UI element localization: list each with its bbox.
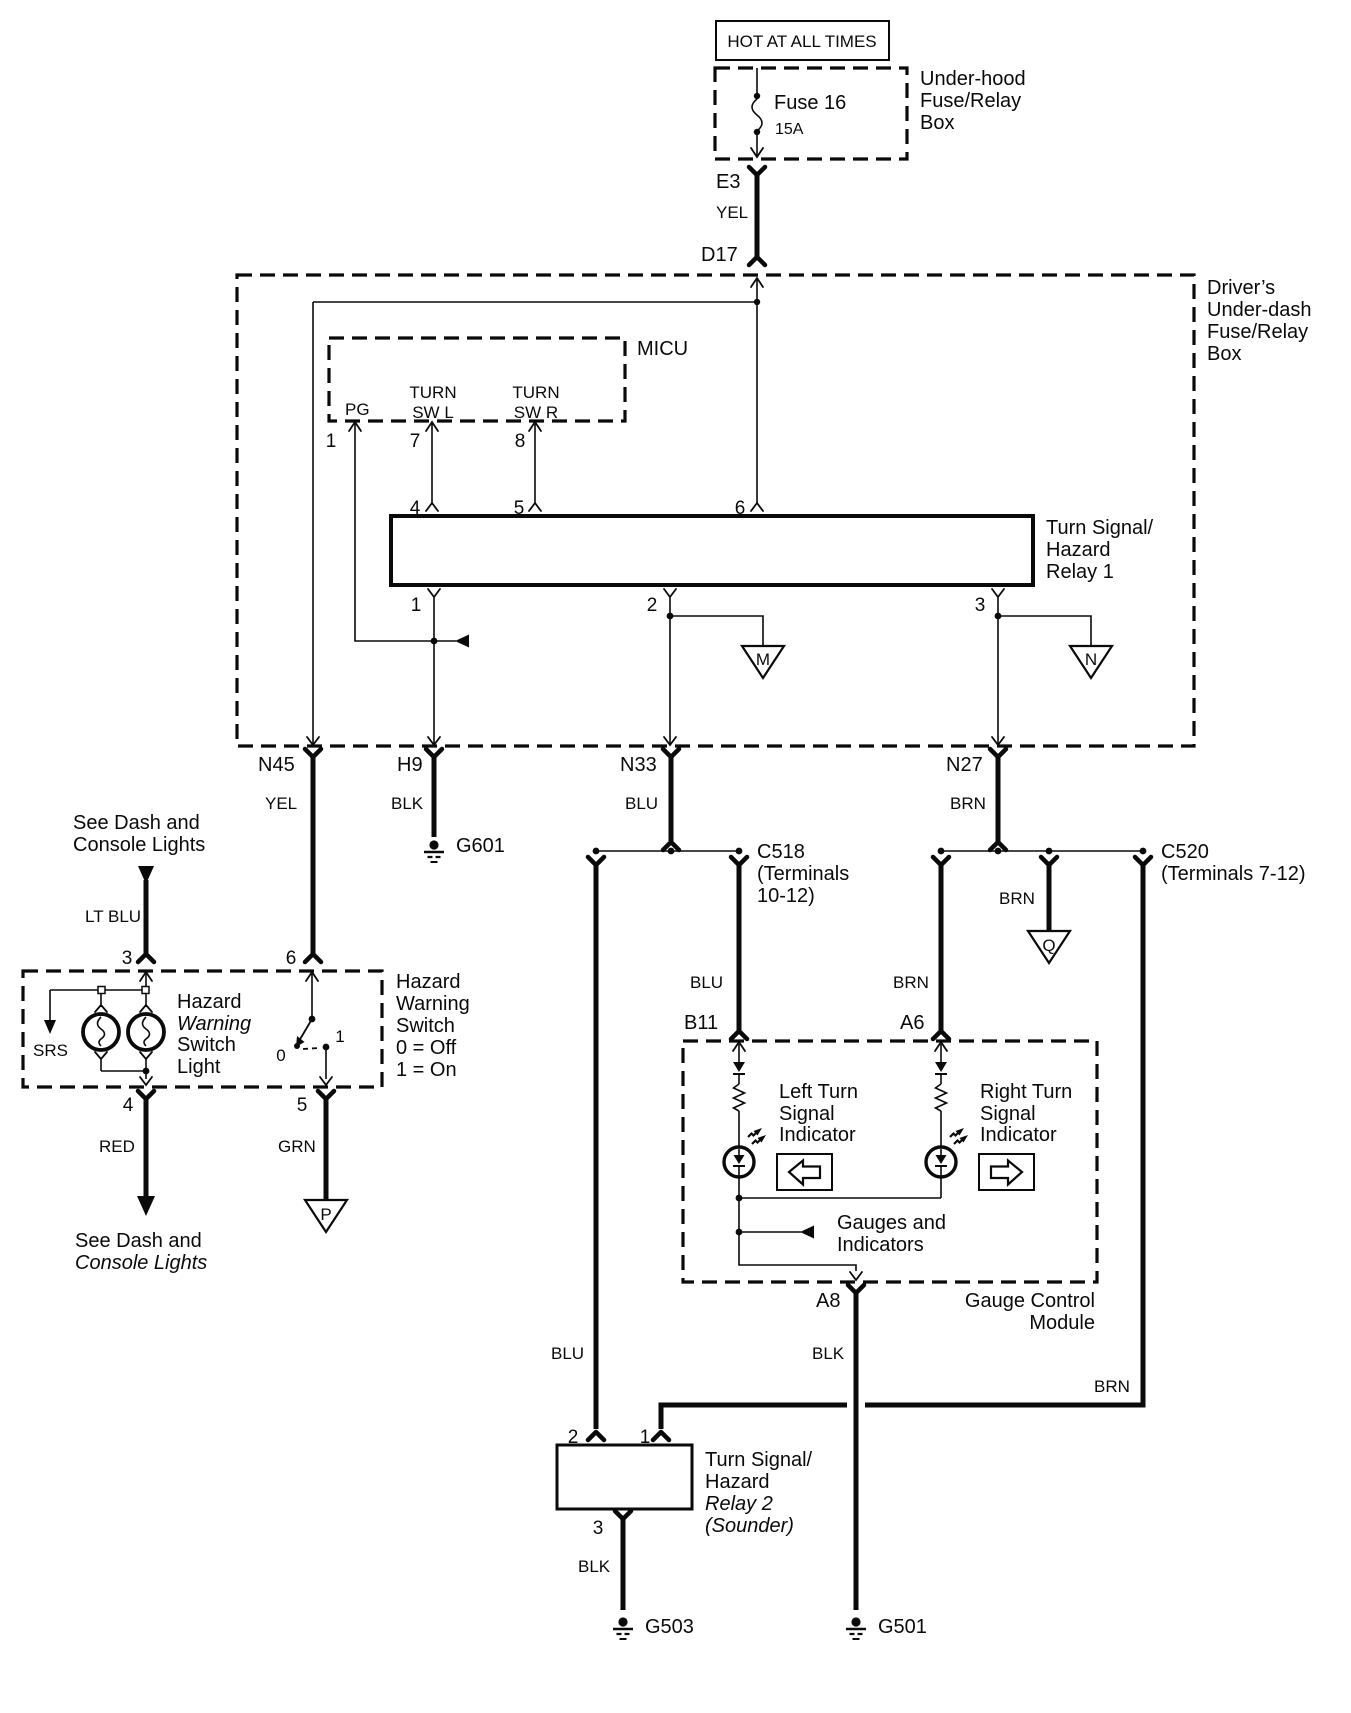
node to gauges stub	[736, 1229, 743, 1236]
svg-text:TURN: TURN	[512, 383, 559, 402]
wire BLU long down to relay 2 pin 2	[594, 863, 599, 1429]
svg-text:1: 1	[411, 595, 422, 616]
svg-text:GRN: GRN	[278, 1137, 316, 1156]
label Under-hood Fuse/Relay Box	[920, 68, 1026, 134]
svg-text:(Terminals 7-12): (Terminals 7-12)	[1161, 863, 1305, 885]
svg-text:Fuse/Relay: Fuse/Relay	[920, 90, 1021, 112]
left arrow icon	[777, 1154, 832, 1190]
svg-text:Switch: Switch	[177, 1034, 236, 1056]
SRS branch wire and arrow	[49, 990, 51, 1021]
pin 7 arrow into MICU	[426, 422, 438, 431]
svg-text:7: 7	[410, 431, 421, 452]
right bulb branch	[145, 993, 147, 1007]
gauge control module box (dashed)	[683, 1041, 1097, 1282]
svg-text:Hazard: Hazard	[177, 991, 241, 1013]
switch pivot node	[309, 1016, 316, 1023]
label see dash and console lights (bottom)	[75, 1230, 207, 1274]
wire contact1 to pin 5	[325, 1047, 327, 1079]
diode right	[935, 1062, 947, 1074]
svg-text:1 = On: 1 = On	[396, 1059, 457, 1081]
pin 5 arrow out of box	[320, 1077, 332, 1085]
wire pin8 to relay pin5	[534, 424, 536, 504]
svg-text:BLU: BLU	[551, 1344, 584, 1363]
relay pin 6 fork	[751, 503, 763, 511]
pin B11 arrow into module	[733, 1042, 745, 1051]
svg-text:YEL: YEL	[716, 203, 748, 222]
svg-text:Right Turn: Right Turn	[980, 1081, 1072, 1103]
relay pin 2 fork and wire	[664, 589, 676, 597]
svg-text:BLK: BLK	[578, 1557, 611, 1576]
svg-text:B11: B11	[684, 1012, 718, 1034]
svg-text:YEL: YEL	[265, 794, 297, 813]
ground G601	[424, 835, 505, 862]
big dashed box	[237, 275, 1194, 746]
wire BLK relay2 to G503	[621, 1517, 626, 1610]
svg-text:G503: G503	[645, 1616, 694, 1638]
svg-text:(Terminals: (Terminals	[757, 863, 849, 885]
svg-text:BLK: BLK	[812, 1344, 845, 1363]
svg-text:SRS: SRS	[33, 1041, 68, 1060]
node at D17 branch	[754, 299, 760, 305]
ground N triangle	[1070, 646, 1112, 678]
svg-text:N27: N27	[946, 754, 983, 776]
relay pin 4 fork	[426, 503, 438, 511]
svg-text:Module: Module	[1029, 1312, 1095, 1334]
svg-text:HOT AT ALL TIMES: HOT AT ALL TIMES	[727, 32, 876, 51]
svg-text:3: 3	[975, 595, 986, 616]
svg-text:A6: A6	[900, 1012, 924, 1034]
svg-text:Gauges and: Gauges and	[837, 1212, 946, 1234]
svg-text:Warning: Warning	[396, 993, 470, 1015]
svg-text:Signal: Signal	[980, 1103, 1036, 1125]
pin TURN SW L label	[409, 383, 456, 422]
switch contact 1	[323, 1044, 330, 1051]
switch dashed throw	[303, 1048, 319, 1049]
wire PG pin1 down and over to relay pin1 wire	[355, 424, 434, 641]
wire YEL N45 to hazard switch	[311, 755, 316, 953]
wire down to A8	[739, 1232, 856, 1271]
fuse F16 wire from box top	[756, 68, 758, 95]
svg-text:Indicator: Indicator	[980, 1124, 1057, 1146]
arrows at big box bottom edge	[307, 737, 319, 745]
svg-text:10-12): 10-12)	[757, 885, 815, 907]
svg-text:TURN: TURN	[409, 383, 456, 402]
svg-text:BRN: BRN	[999, 889, 1035, 908]
HOT AT ALL TIMES box	[716, 21, 889, 60]
wire BLK A8 to G501	[854, 1291, 859, 1610]
under-hood fuse/relay box (dashed)	[715, 68, 907, 159]
svg-text:RED: RED	[99, 1137, 135, 1156]
hazard warning switch box (dashed)	[23, 971, 382, 1087]
svg-text:A8: A8	[816, 1290, 840, 1312]
svg-text:G501: G501	[878, 1616, 927, 1638]
left bulb branch	[100, 993, 102, 1007]
pin A8 arrow out of module	[850, 1272, 862, 1280]
node junction pin3	[995, 613, 1002, 620]
svg-text:C518: C518	[757, 841, 805, 863]
label see dash and console lights (top)	[73, 812, 205, 856]
label Hazard Warning Switch Light inside box	[177, 991, 251, 1078]
wire to ground M	[670, 616, 763, 646]
label Driver's Under-dash Fuse/Relay Box	[1207, 277, 1312, 365]
node bulbs join	[143, 1068, 150, 1075]
svg-text:BLU: BLU	[690, 973, 723, 992]
wire BLK H9 to G601	[432, 755, 437, 837]
label C520	[1161, 841, 1305, 885]
svg-text:0: 0	[276, 1046, 285, 1065]
svg-text:Hazard: Hazard	[396, 971, 460, 993]
splice square right bulb	[142, 987, 149, 994]
label Turn Signal/Hazard Relay 1	[1046, 517, 1154, 583]
svg-text:Turn Signal/: Turn Signal/	[1046, 517, 1154, 539]
svg-text:Turn Signal/: Turn Signal/	[705, 1449, 813, 1471]
svg-text:See Dash and: See Dash and	[75, 1230, 202, 1252]
label C518	[757, 841, 849, 907]
resistor left	[734, 1084, 745, 1111]
svg-text:P: P	[320, 1205, 331, 1224]
wire joining both indicators	[736, 1195, 743, 1202]
svg-text:SW L: SW L	[412, 403, 454, 422]
svg-text:M: M	[756, 650, 770, 669]
svg-text:BLK: BLK	[391, 794, 424, 813]
wire fuse to E3 with arrow at box edge	[756, 134, 758, 156]
wire D17 into box, arrow at edge	[751, 278, 763, 287]
LED right turn signal indicator	[926, 1147, 956, 1177]
pin 6 arrow into box	[306, 972, 318, 981]
bulb lamp right	[128, 1014, 164, 1050]
svg-text:BRN: BRN	[1094, 1377, 1130, 1396]
connector E3 / wire YEL / connector D17	[701, 167, 765, 266]
connector N33	[620, 749, 679, 776]
svg-text:SW R: SW R	[514, 403, 558, 422]
svg-text:E3: E3	[716, 171, 740, 193]
wire BLU end fork at relay 2 pin 2	[588, 1432, 604, 1440]
wire stub with left-pointing arrow	[434, 640, 456, 642]
svg-text:Indicators: Indicators	[837, 1234, 924, 1256]
ground M triangle	[742, 646, 784, 678]
wire pin3 down and split	[145, 974, 147, 990]
node junction pin1/PG	[431, 638, 438, 645]
wire pin7 to relay pin4	[431, 424, 433, 504]
label Right Turn Signal Indicator	[980, 1081, 1072, 1146]
resistor right	[936, 1084, 947, 1111]
svg-text:Indicator: Indicator	[779, 1124, 856, 1146]
svg-text:5: 5	[297, 1095, 308, 1116]
arrow from dash lights	[138, 866, 154, 884]
svg-text:Fuse 16: Fuse 16	[774, 92, 846, 114]
svg-text:Q: Q	[1042, 936, 1055, 955]
label Gauge Control Module	[965, 1290, 1095, 1334]
svg-text:3: 3	[122, 948, 133, 969]
connector under C520 middle	[1041, 857, 1057, 865]
flasher squiggle right	[950, 1128, 968, 1144]
svg-text:G601: G601	[456, 835, 505, 857]
svg-text:C520: C520	[1161, 841, 1209, 863]
node junction pin2	[667, 613, 674, 620]
node line C520	[941, 850, 1143, 852]
relay pin 3 fork and wire	[992, 589, 1004, 597]
svg-text:Warning: Warning	[177, 1013, 251, 1035]
svg-text:MICU: MICU	[637, 338, 688, 360]
diode left	[733, 1062, 745, 1074]
svg-text:LT BLU: LT BLU	[85, 907, 141, 926]
svg-text:Relay 1: Relay 1	[1046, 561, 1114, 583]
wire horizontal branch to left	[313, 301, 757, 303]
splice square left bulb	[98, 987, 105, 994]
label Turn Signal/Hazard Relay 2 (Sounder)	[705, 1449, 813, 1537]
svg-text:Under-dash: Under-dash	[1207, 299, 1312, 321]
pin TURN SW R label	[512, 383, 559, 422]
svg-text:Hazard: Hazard	[705, 1471, 769, 1493]
svg-text:15A: 15A	[775, 121, 804, 138]
connector under C520 right	[1135, 857, 1151, 865]
pin 1 arrow into MICU	[349, 422, 361, 431]
LED left turn signal indicator	[724, 1147, 754, 1177]
connector N27	[946, 749, 1006, 776]
connector N45	[258, 749, 321, 776]
wire BRN to ground Q	[1047, 863, 1052, 931]
connector under C520 left	[933, 857, 949, 865]
svg-text:Hazard: Hazard	[1046, 539, 1110, 561]
svg-text:1: 1	[335, 1027, 344, 1046]
svg-text:4: 4	[123, 1095, 134, 1116]
label Left Turn Signal Indicator	[779, 1081, 858, 1146]
flasher squiggle left	[748, 1128, 766, 1144]
svg-text:BRN: BRN	[893, 973, 929, 992]
svg-text:Under-hood: Under-hood	[920, 68, 1026, 90]
svg-text:Signal: Signal	[779, 1103, 835, 1125]
svg-text:BLU: BLU	[625, 794, 658, 813]
svg-text:2: 2	[647, 595, 658, 616]
svg-text:Gauge Control: Gauge Control	[965, 1290, 1095, 1312]
pin A6 arrow into module	[935, 1042, 947, 1051]
svg-text:BRN: BRN	[950, 794, 986, 813]
MICU box (dashed)	[329, 338, 625, 421]
ground Q triangle	[1028, 931, 1070, 963]
ground G501	[846, 1616, 927, 1639]
ground P triangle	[305, 1200, 347, 1232]
wire BLU N33 to C518	[669, 755, 674, 841]
svg-text:H9: H9	[397, 754, 423, 776]
wire BRN N27 to C520	[996, 755, 1001, 841]
right arrow icon	[979, 1154, 1034, 1190]
wire stub with left arrow to gauges	[739, 1231, 801, 1233]
wire to ground N	[998, 616, 1091, 646]
svg-text:6: 6	[286, 948, 297, 969]
fuse 16 element	[752, 92, 846, 138]
bulb lamp left	[83, 1014, 119, 1050]
wire left vertical down to N45	[312, 302, 314, 744]
turn signal/hazard relay 1 box	[391, 516, 1033, 585]
svg-text:Switch: Switch	[396, 1015, 455, 1037]
relay pin 1 fork and wire	[428, 589, 440, 597]
svg-text:Light: Light	[177, 1056, 221, 1078]
svg-text:PG: PG	[345, 400, 370, 419]
svg-text:3: 3	[593, 1518, 604, 1539]
connector under C518 left	[588, 857, 604, 865]
wire BLU to B11	[737, 863, 742, 1030]
svg-text:1: 1	[326, 431, 337, 452]
switch blade	[299, 1019, 312, 1041]
wire BRN to A6	[939, 863, 944, 1030]
left indicator branch wire	[738, 1044, 740, 1062]
connector A8	[816, 1285, 864, 1312]
svg-text:Relay 2: Relay 2	[705, 1493, 773, 1515]
svg-text:8: 8	[515, 431, 526, 452]
connector H9	[397, 749, 442, 776]
turn signal/hazard relay 2 box	[557, 1445, 692, 1509]
svg-text:D17: D17	[701, 244, 738, 266]
right indicator branch wire	[940, 1044, 942, 1062]
label Gauges and Indicators	[837, 1212, 946, 1256]
svg-text:Console Lights: Console Lights	[73, 834, 205, 856]
svg-text:Box: Box	[920, 112, 954, 134]
svg-text:Fuse/Relay: Fuse/Relay	[1207, 321, 1308, 343]
svg-text:N33: N33	[620, 754, 657, 776]
ground G503	[613, 1616, 694, 1639]
connector under C518 right	[731, 857, 747, 865]
wire BRN right side elbow to relay 2 pin 1 (with crossover gap)	[865, 863, 1143, 1405]
node line C518	[596, 850, 739, 852]
svg-text:See Dash and: See Dash and	[73, 812, 200, 834]
svg-text:Driver’s: Driver’s	[1207, 277, 1275, 299]
pin 3 arrow into box	[140, 972, 152, 981]
label Hazard Warning Switch right side	[396, 971, 470, 1081]
svg-text:N: N	[1085, 650, 1097, 669]
svg-text:Left Turn: Left Turn	[779, 1081, 858, 1103]
svg-text:Box: Box	[1207, 343, 1241, 365]
svg-text:N45: N45	[258, 754, 295, 776]
svg-text:Console Lights: Console Lights	[75, 1252, 207, 1274]
pin 4 arrow out of box	[140, 1077, 152, 1085]
wire LT BLU down to switch pin 3	[144, 880, 149, 953]
svg-text:0 = Off: 0 = Off	[396, 1037, 457, 1059]
switch wire from pin 6	[311, 974, 313, 1019]
relay pin 5 fork	[529, 503, 541, 511]
svg-text:(Sounder): (Sounder)	[705, 1515, 794, 1537]
pin 8 arrow into MICU	[529, 422, 541, 431]
